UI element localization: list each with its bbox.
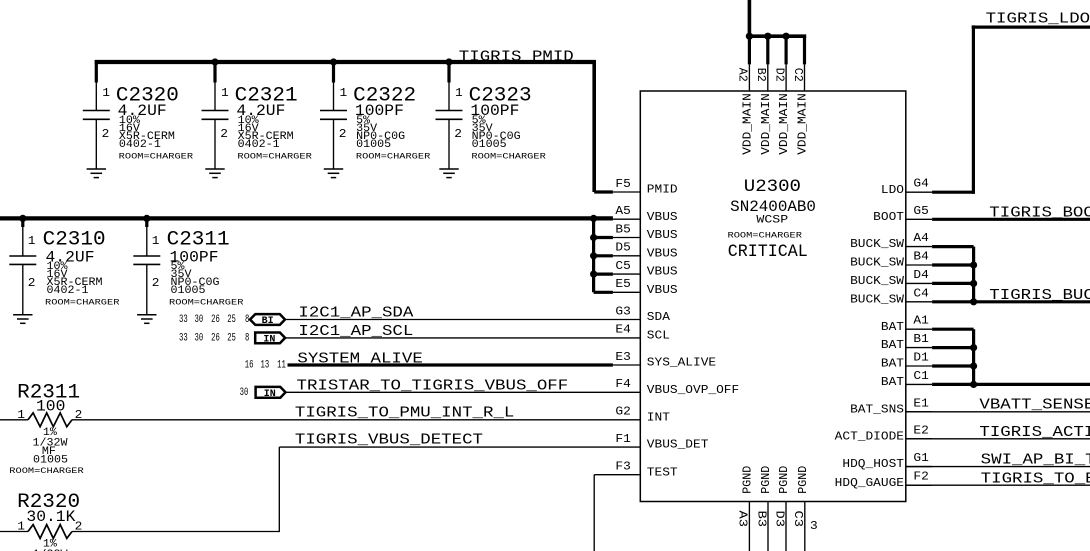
svg-text:TIGRIS_VBUS_DETECT: TIGRIS_VBUS_DETECT	[295, 433, 483, 449]
svg-text:2: 2	[339, 127, 347, 141]
svg-text:1: 1	[455, 86, 463, 100]
svg-text:1: 1	[221, 86, 229, 100]
svg-text:0402-1: 0402-1	[238, 139, 280, 151]
svg-text:13: 13	[261, 360, 270, 372]
svg-text:BAT: BAT	[881, 357, 904, 371]
svg-text:ACT_DIODE: ACT_DIODE	[835, 429, 904, 443]
svg-text:ROOM=CHARGER: ROOM=CHARGER	[471, 153, 545, 162]
svg-text:01005: 01005	[356, 139, 391, 151]
svg-text:1: 1	[102, 86, 110, 100]
svg-text:I2C1_AP_SDA: I2C1_AP_SDA	[298, 306, 413, 322]
svg-text:VBUS: VBUS	[647, 283, 678, 297]
svg-text:TRISTAR_TO_TIGRIS_VBUS_OFF: TRISTAR_TO_TIGRIS_VBUS_OFF	[297, 378, 569, 394]
svg-text:BAT: BAT	[881, 338, 904, 352]
svg-text:IN: IN	[264, 389, 276, 400]
svg-text:PGND: PGND	[796, 466, 810, 494]
svg-text:C3: C3	[791, 511, 805, 528]
svg-text:D3: D3	[772, 511, 786, 528]
svg-text:0402-1: 0402-1	[47, 285, 89, 297]
svg-text:SDA: SDA	[647, 310, 671, 324]
svg-text:PGND: PGND	[759, 466, 773, 494]
svg-text:2: 2	[220, 127, 228, 141]
svg-text:F3: F3	[615, 460, 630, 474]
svg-text:TIGRIS_TO_PMU_INT_R_L: TIGRIS_TO_PMU_INT_R_L	[295, 406, 514, 422]
svg-text:I2C1_AP_SCL: I2C1_AP_SCL	[298, 324, 413, 340]
svg-text:D5: D5	[615, 241, 630, 255]
svg-text:BAT_SNS: BAT_SNS	[850, 402, 904, 416]
svg-text:8: 8	[245, 332, 249, 344]
svg-text:A2: A2	[736, 68, 750, 82]
svg-text:G4: G4	[913, 177, 928, 191]
svg-text:TIGRIS_LDO: TIGRIS_LDO	[986, 12, 1090, 28]
svg-text:PMID: PMID	[647, 183, 678, 197]
svg-text:25: 25	[227, 332, 236, 344]
svg-text:E5: E5	[615, 277, 630, 291]
svg-text:VBATT_SENSE: VBATT_SENSE	[979, 398, 1090, 414]
svg-text:BAT: BAT	[881, 375, 904, 389]
svg-text:30: 30	[240, 387, 249, 399]
svg-text:HDQ_HOST: HDQ_HOST	[842, 457, 904, 471]
svg-text:01005: 01005	[33, 454, 68, 466]
svg-text:B3: B3	[754, 511, 768, 528]
svg-text:F2: F2	[913, 470, 928, 484]
svg-text:100: 100	[36, 397, 65, 415]
svg-text:WCSP: WCSP	[756, 214, 788, 226]
svg-text:8: 8	[245, 314, 249, 326]
svg-text:LDO: LDO	[881, 183, 904, 197]
svg-text:B4: B4	[913, 250, 928, 264]
svg-text:F5: F5	[615, 177, 630, 191]
svg-text:C2: C2	[791, 68, 805, 82]
svg-text:30.1K: 30.1K	[26, 508, 76, 526]
svg-text:25: 25	[227, 314, 236, 326]
svg-text:IN: IN	[263, 335, 275, 346]
svg-text:C5: C5	[615, 259, 630, 273]
svg-text:E4: E4	[615, 323, 630, 337]
svg-text:D4: D4	[913, 268, 928, 282]
svg-text:TIGRIS_TO_BGAUG: TIGRIS_TO_BGAUG	[981, 471, 1090, 487]
svg-text:B2: B2	[754, 68, 768, 82]
svg-text:A1: A1	[913, 314, 928, 328]
svg-text:ROOM=CHARGER: ROOM=CHARGER	[356, 153, 430, 162]
svg-text:2: 2	[454, 127, 462, 141]
svg-text:G3: G3	[615, 304, 630, 318]
svg-text:BUCK_SW: BUCK_SW	[850, 256, 905, 270]
svg-text:BI: BI	[262, 316, 274, 327]
svg-text:PGND: PGND	[777, 466, 791, 494]
svg-text:E2: E2	[913, 423, 928, 437]
svg-text:ROOM=CHARGER: ROOM=CHARGER	[119, 153, 193, 162]
svg-text:E3: E3	[615, 350, 630, 364]
svg-text:E1: E1	[913, 396, 928, 410]
svg-text:A4: A4	[913, 231, 928, 245]
svg-text:BUCK_SW: BUCK_SW	[850, 274, 905, 288]
svg-text:SYS_ALIVE: SYS_ALIVE	[647, 356, 716, 370]
svg-text:VBUS_DET: VBUS_DET	[647, 438, 709, 452]
svg-text:1: 1	[340, 86, 348, 100]
svg-text:ROOM=CHARGER: ROOM=CHARGER	[9, 467, 83, 476]
svg-text:2: 2	[75, 408, 83, 422]
svg-text:VDD_MAIN: VDD_MAIN	[777, 93, 791, 155]
svg-text:SWI_AP_BI_TIG: SWI_AP_BI_TIG	[981, 453, 1090, 469]
svg-text:2: 2	[102, 127, 110, 141]
svg-text:A3: A3	[736, 511, 750, 528]
svg-text:11: 11	[277, 360, 286, 372]
svg-text:F4: F4	[615, 377, 630, 391]
svg-text:33: 33	[179, 332, 188, 344]
svg-text:1: 1	[28, 234, 36, 248]
svg-text:TIGRIS_BUCK: TIGRIS_BUCK	[989, 288, 1090, 304]
svg-text:01005: 01005	[472, 139, 507, 151]
svg-text:PGND: PGND	[740, 466, 754, 494]
svg-text:ROOM=CHARGER: ROOM=CHARGER	[169, 299, 243, 308]
svg-text:B1: B1	[913, 332, 928, 346]
svg-text:30: 30	[195, 332, 204, 344]
svg-text:TIGRIS_PMID: TIGRIS_PMID	[459, 50, 574, 66]
svg-text:VBUS_OVP_OFF: VBUS_OVP_OFF	[647, 383, 739, 397]
svg-text:HDQ_GAUGE: HDQ_GAUGE	[835, 476, 904, 490]
svg-text:TIGRIS_ACTIVE_D: TIGRIS_ACTIVE_D	[979, 425, 1090, 441]
svg-text:VBUS: VBUS	[647, 246, 678, 260]
svg-text:33: 33	[179, 314, 188, 326]
svg-text:ROOM=CHARGER: ROOM=CHARGER	[237, 153, 311, 162]
svg-text:26: 26	[211, 332, 220, 344]
svg-text:G1: G1	[913, 451, 928, 465]
svg-text:INT: INT	[647, 410, 670, 424]
svg-text:0402-1: 0402-1	[119, 139, 161, 151]
svg-text:G2: G2	[615, 405, 630, 419]
svg-text:VBUS: VBUS	[647, 228, 678, 242]
svg-text:VDD_MAIN: VDD_MAIN	[759, 93, 773, 155]
svg-text:D1: D1	[913, 351, 928, 365]
svg-text:SYSTEM_ALIVE: SYSTEM_ALIVE	[297, 352, 422, 368]
svg-text:ROOM=CHARGER: ROOM=CHARGER	[728, 231, 802, 240]
svg-text:C1: C1	[913, 369, 928, 383]
svg-text:VBUS: VBUS	[647, 265, 678, 279]
svg-text:2: 2	[152, 276, 160, 290]
svg-text:30: 30	[195, 314, 204, 326]
svg-text:D2: D2	[772, 68, 786, 82]
svg-text:BUCK_SW: BUCK_SW	[850, 292, 905, 306]
svg-text:VDD_MAIN: VDD_MAIN	[796, 93, 810, 155]
svg-text:B5: B5	[615, 222, 630, 236]
svg-text:BOOT: BOOT	[873, 210, 904, 224]
svg-text:1: 1	[17, 408, 25, 422]
svg-text:SCL: SCL	[647, 329, 670, 343]
svg-text:VBUS: VBUS	[647, 210, 678, 224]
svg-text:CRITICAL: CRITICAL	[728, 242, 808, 262]
svg-text:2: 2	[28, 276, 36, 290]
svg-text:1: 1	[17, 520, 25, 534]
svg-text:U2300: U2300	[744, 178, 801, 197]
svg-text:1: 1	[152, 234, 160, 248]
svg-text:16: 16	[245, 360, 254, 372]
svg-text:TEST: TEST	[647, 465, 678, 479]
svg-text:2: 2	[75, 520, 83, 534]
svg-text:TIGRIS_BOOST: TIGRIS_BOOST	[989, 205, 1090, 221]
svg-text:3: 3	[810, 519, 818, 533]
svg-text:VDD_MAIN: VDD_MAIN	[740, 93, 754, 155]
svg-text:01005: 01005	[171, 285, 206, 297]
svg-text:BAT: BAT	[881, 320, 904, 334]
svg-text:A5: A5	[615, 204, 630, 218]
svg-text:G5: G5	[913, 204, 928, 218]
svg-text:BUCK_SW: BUCK_SW	[850, 237, 905, 251]
svg-text:26: 26	[211, 314, 220, 326]
svg-text:C4: C4	[913, 286, 928, 300]
svg-text:ROOM=CHARGER: ROOM=CHARGER	[45, 299, 119, 308]
svg-text:F1: F1	[615, 432, 630, 446]
